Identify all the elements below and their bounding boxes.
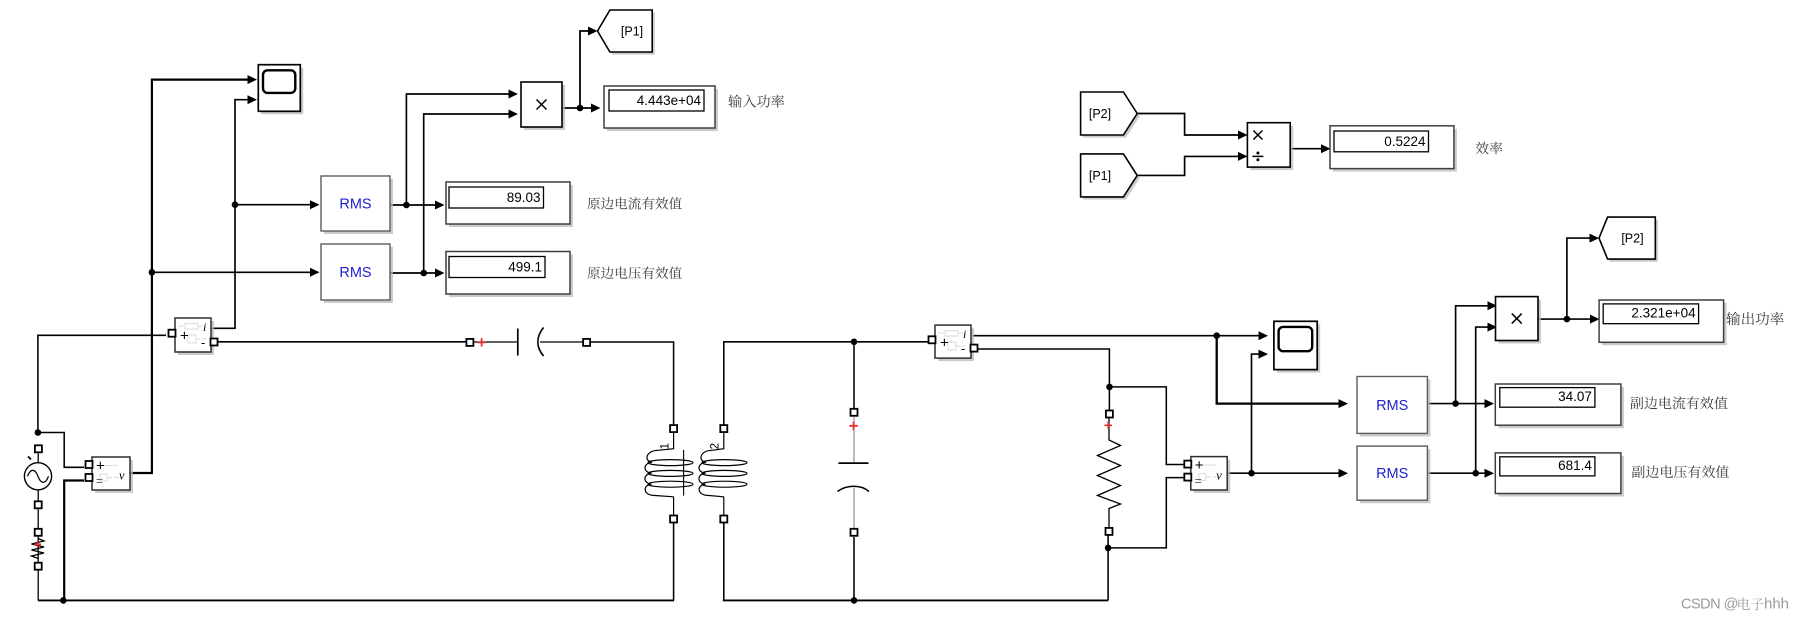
series capacitor C1	[473, 328, 584, 357]
wire v2 plus tap	[1110, 387, 1186, 465]
port C2 bottom	[851, 529, 858, 536]
junction i-signal/RMS1	[232, 201, 239, 208]
wire i2-signal to scope2 in1	[972, 335, 1263, 337]
svg-text:[P2]: [P2]	[1621, 232, 1643, 246]
wire RMS3 branch to product2 in1	[1456, 306, 1492, 404]
svg-text:-: -	[961, 341, 965, 356]
label output power 输出功率	[1727, 312, 1784, 325]
junction RMS3-out	[1452, 400, 1459, 407]
junction source top	[35, 429, 42, 436]
arrowhead RMS4 in	[1339, 469, 1349, 478]
arrowhead goto P1 in	[588, 27, 598, 36]
wire cap2 to bottom	[853, 537, 855, 600]
wire i1-signal branch to RMS1	[235, 204, 315, 206]
svg-text:i: i	[203, 320, 206, 334]
wire from P2 to divide in1	[1137, 114, 1242, 136]
wire RMS3 out to display	[1427, 403, 1489, 405]
wire cap1 to winding1	[589, 342, 674, 425]
label efficiency 效率	[1476, 142, 1503, 155]
transformer winding 2	[699, 431, 747, 517]
wire product1 branch to goto P1	[580, 31, 593, 108]
svg-text:89.03: 89.03	[507, 190, 541, 205]
parallel capacitor C2	[838, 417, 870, 528]
junction load bottom v2-tap	[1105, 545, 1112, 552]
svg-text:+: +	[180, 328, 189, 345]
svg-text:v: v	[119, 469, 125, 483]
current measurement secondary	[929, 325, 978, 361]
label 原边电流有效值	[587, 197, 681, 210]
arrowhead RMS2 in	[310, 268, 320, 277]
arrowhead divide in2	[1238, 152, 1248, 161]
junction secondary top	[851, 339, 858, 346]
svg-text:i: i	[963, 327, 966, 341]
port load bottom	[1106, 528, 1113, 535]
port resistor top	[35, 529, 42, 536]
port winding1 bottom	[670, 516, 677, 523]
arrowhead display 0.5224 in	[1321, 144, 1331, 153]
RMS block primary voltage	[321, 244, 393, 303]
wire source top to current1	[38, 335, 166, 432]
arrowhead scope2 in2	[1259, 350, 1269, 359]
svg-text:hhh: hhh	[1764, 596, 1789, 613]
junction bottom v1-minus	[60, 597, 67, 604]
load resistor	[1098, 417, 1121, 528]
svg-text:1: 1	[660, 443, 672, 449]
svg-text:499.1: 499.1	[508, 260, 542, 275]
port load top	[1106, 411, 1113, 418]
wire cap2 branch	[853, 342, 855, 408]
wire v1-signal branch to RMS2	[152, 271, 315, 273]
svg-text:v: v	[1216, 468, 1222, 482]
port winding2 bottom	[720, 516, 727, 523]
svg-text:681.4: 681.4	[1558, 458, 1592, 473]
label 副边电流有效值	[1630, 396, 1727, 409]
arrowhead product2 in1	[1488, 301, 1498, 310]
wire RMS4 out to display	[1427, 472, 1489, 474]
wire divide out to display	[1290, 148, 1325, 150]
junction load top v2-tap	[1106, 384, 1113, 391]
svg-text:=: =	[1195, 474, 1202, 488]
arrowhead goto P2 in	[1590, 234, 1600, 243]
arrowhead RMS1 in	[310, 200, 320, 209]
svg-text:0.5224: 0.5224	[1384, 134, 1426, 149]
svg-text:+: +	[96, 458, 105, 475]
divide block efficiency	[1247, 123, 1293, 170]
current measurement primary	[169, 318, 218, 355]
wire from P1 to divide in2	[1137, 156, 1242, 175]
RMS block secondary voltage	[1357, 446, 1430, 503]
port winding1 top	[670, 425, 677, 432]
port C2 top	[851, 409, 858, 416]
svg-text:RMS: RMS	[1376, 466, 1408, 482]
arrowhead display input-power in	[591, 104, 601, 113]
wire v2 minus tap	[1108, 478, 1185, 548]
display 34.07	[1495, 384, 1624, 428]
junction i2-signal	[1213, 332, 1220, 339]
junction RMS4-out	[1472, 470, 1479, 477]
junction v2-signal	[1248, 470, 1255, 477]
label input power 输入功率	[728, 94, 784, 107]
wire source to resistor	[37, 452, 39, 600]
svg-text:[P1]: [P1]	[621, 25, 643, 39]
voltage measurement primary	[86, 457, 134, 493]
arrowhead scope2 in1	[1259, 331, 1269, 340]
junction RMS1-out	[403, 202, 410, 209]
from tag [P1]	[1081, 154, 1140, 200]
wire winding2 bottom	[723, 522, 725, 600]
wire current2 minus to load	[977, 349, 1109, 411]
label 副边电压有效值	[1632, 465, 1729, 478]
display 499.1	[446, 252, 573, 298]
goto tag [P2]	[1599, 217, 1658, 262]
wire v2-signal branch to scope2 in2	[1252, 354, 1264, 473]
voltage measurement secondary	[1184, 457, 1230, 493]
display output power 2.321e+04	[1599, 300, 1727, 345]
arrowhead display 34.07 in	[1485, 399, 1495, 408]
svg-text:RMS: RMS	[339, 197, 371, 213]
port source top	[35, 445, 42, 452]
display 89.03	[446, 182, 573, 227]
arrowhead display 89.03 in	[435, 201, 445, 210]
wire i2-signal branch to RMS3	[1217, 336, 1343, 404]
junction v-signal/RMS2	[149, 269, 156, 276]
watermark 电子	[1738, 598, 1763, 611]
wire RMS1 branch to product1 in1	[406, 94, 513, 205]
AC voltage source	[24, 457, 51, 490]
wire RMS4 branch to product2 in2	[1476, 327, 1492, 473]
wire v1 minus to bottom	[64, 481, 84, 601]
port source bottom	[35, 501, 42, 508]
svg-text:RMS: RMS	[339, 265, 371, 281]
wire product1 out to display	[562, 107, 596, 109]
svg-text:+: +	[940, 335, 949, 352]
wire v2-signal to RMS4	[1228, 472, 1343, 474]
arrowhead product1 in1	[509, 90, 519, 99]
label 原边电压有效值	[587, 267, 681, 280]
arrowhead display 681.4 in	[1485, 469, 1495, 478]
port C1 right	[583, 339, 590, 346]
scope Scope2	[1274, 321, 1320, 372]
RMS block primary current	[321, 176, 393, 234]
arrowhead scope1 in1	[248, 75, 258, 84]
junction RMS2-out	[420, 270, 427, 277]
arrowhead display 499.1 in	[435, 269, 445, 278]
wire v1 plus tap	[38, 433, 84, 468]
wire i1-signal to scope1 in2	[212, 100, 252, 329]
display efficiency 0.5224	[1330, 126, 1457, 172]
watermark CSDN	[1681, 597, 1738, 613]
wire v1-signal to scope1 in1	[131, 80, 253, 473]
RMS block secondary current	[1357, 377, 1430, 437]
wire load resistor bottom	[1107, 535, 1109, 600]
svg-text:34.07: 34.07	[1558, 389, 1592, 404]
port C1 left	[466, 339, 473, 346]
transformer winding 1	[645, 431, 693, 517]
svg-text:2.321e+04: 2.321e+04	[1631, 306, 1696, 321]
svg-text:=: =	[96, 474, 103, 488]
product block P1 multiply	[521, 82, 565, 130]
goto tag [P1]	[598, 10, 655, 55]
source series resistor	[32, 539, 45, 559]
wire bottom secondary	[723, 599, 1108, 601]
wire winding1 bottom	[673, 522, 675, 600]
junction product2-out	[1564, 316, 1571, 323]
svg-text:4.443e+04: 4.443e+04	[637, 93, 702, 108]
arrowhead product2 in2	[1488, 323, 1498, 332]
arrowhead product1 in2	[509, 110, 519, 119]
wire RMS2 branch to product1 in2	[424, 114, 513, 273]
port resistor bottom	[35, 563, 42, 570]
svg-text:+: +	[1195, 457, 1204, 474]
svg-text:-: -	[201, 335, 205, 350]
product block P2 multiply	[1496, 297, 1542, 344]
arrowhead RMS3 in	[1339, 399, 1349, 408]
svg-text:[P2]: [P2]	[1089, 107, 1111, 121]
junction product1-out	[577, 105, 584, 112]
arrowhead display output-power in	[1590, 315, 1600, 324]
display 681.4	[1495, 453, 1624, 497]
display input power 4.443e+04	[604, 86, 718, 131]
arrowhead scope1 in2	[248, 95, 258, 104]
arrowhead divide in1	[1238, 131, 1248, 140]
wire current1 minus to cap	[215, 341, 467, 343]
port winding2 top	[720, 425, 727, 432]
svg-text:2: 2	[710, 443, 722, 449]
svg-text:[P1]: [P1]	[1089, 169, 1111, 183]
svg-text:CSDN @: CSDN @	[1681, 597, 1738, 613]
scope Scope1	[258, 65, 303, 115]
wire product2 branch to goto P2	[1567, 238, 1594, 319]
wire bottom primary	[38, 599, 674, 601]
wire RMS1 out to display	[390, 204, 440, 206]
svg-text:RMS: RMS	[1376, 398, 1408, 414]
junction secondary bottom	[851, 597, 858, 604]
wire RMS2 out to display	[390, 272, 440, 274]
wire winding2 top	[724, 342, 930, 425]
wire product2 out to display	[1538, 318, 1595, 320]
from tag [P2]	[1081, 92, 1140, 138]
